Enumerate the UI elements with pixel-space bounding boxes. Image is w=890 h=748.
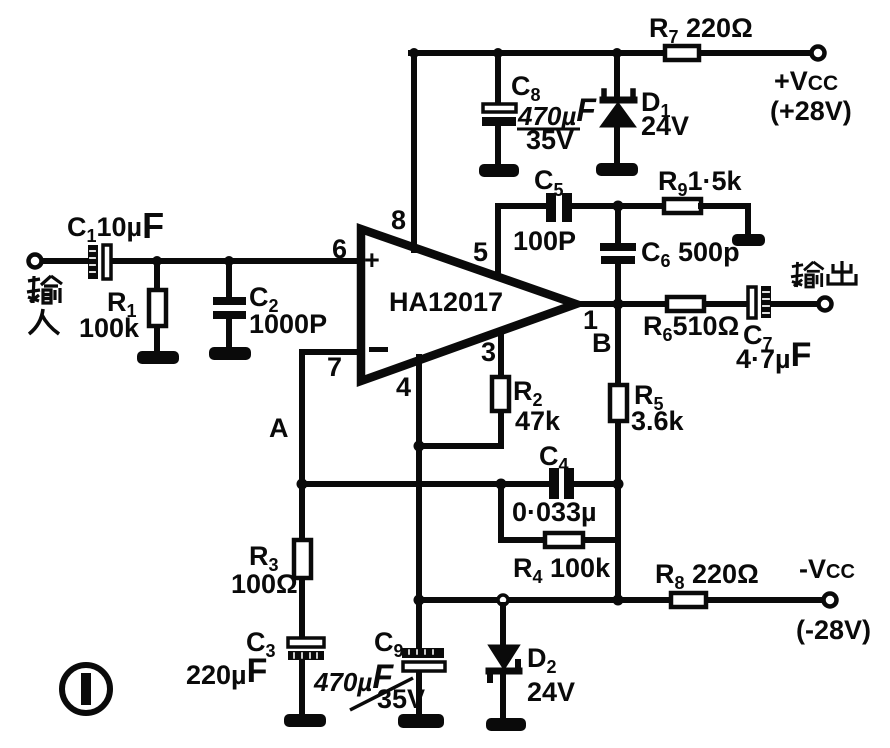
svg-text:B: B: [592, 328, 612, 358]
label C8 value handwritten: [517, 92, 597, 155]
label R3: [231, 541, 298, 599]
op-amp U1 HA12017: [361, 229, 576, 381]
node pin4 -Vcc: [414, 595, 425, 606]
svg-text:(-28V): (-28V): [796, 615, 871, 645]
capacitor C6: [600, 243, 636, 264]
node B: [613, 299, 624, 310]
terminal +Vcc: [812, 47, 825, 60]
label R9: [658, 166, 743, 200]
svg-text:24V: 24V: [527, 677, 575, 707]
wire R3 column: [299, 484, 305, 716]
label pin 1: [583, 305, 598, 335]
svg-text:+: +: [364, 245, 380, 275]
wire D2 column: [500, 605, 506, 719]
node R1: [152, 256, 162, 266]
label C4: [512, 441, 597, 527]
label D2: [527, 643, 575, 707]
svg-text:100P: 100P: [513, 226, 576, 256]
svg-text:3.6k: 3.6k: [631, 406, 685, 436]
wire C9 column: [416, 600, 422, 716]
node top rail D1: [612, 48, 622, 58]
svg-text:8: 8: [391, 205, 406, 235]
wire C5 to R9: [572, 203, 664, 209]
resistor R6: [667, 297, 704, 311]
svg-text:100Ω: 100Ω: [231, 569, 298, 599]
node top rail pin8 corner: [409, 48, 419, 58]
resistor R7: [665, 46, 699, 60]
ground D1: [596, 163, 638, 176]
node R5 -Vcc: [613, 595, 624, 606]
wire pin 5 to C5: [498, 206, 546, 276]
svg-text:C6 500p: C6 500p: [641, 237, 740, 271]
svg-text:R91·5k: R91·5k: [658, 166, 743, 200]
node A left junction: [297, 479, 308, 490]
label C8: [511, 71, 541, 105]
wire pin 3 column: [419, 335, 501, 446]
svg-text:R8 220Ω: R8 220Ω: [655, 559, 759, 593]
wire node A rail: [302, 481, 618, 487]
svg-text:(+28V): (+28V): [770, 96, 852, 126]
node C5 R9 C6: [613, 201, 624, 212]
label D1: [641, 87, 689, 141]
svg-text:A: A: [269, 413, 289, 443]
resistor R9: [664, 199, 701, 213]
label C7: [736, 320, 811, 374]
label input Chinese: [27, 276, 62, 303]
svg-text:4: 4: [396, 372, 411, 402]
label pin 3: [481, 337, 496, 367]
label R5: [631, 380, 685, 436]
terminal -Vcc: [824, 594, 837, 607]
label R1: [79, 287, 140, 343]
svg-text:47k: 47k: [515, 406, 561, 436]
zener diode D2: [489, 646, 519, 680]
label output Chinese: [791, 262, 824, 287]
resistor R1: [149, 290, 166, 326]
ground C3: [284, 714, 326, 727]
label R4: [513, 553, 611, 587]
svg-text:R4 100k: R4 100k: [513, 553, 611, 587]
terminal output: [819, 298, 832, 311]
ground R1: [137, 351, 179, 364]
svg-text:HA12017: HA12017: [389, 287, 503, 317]
svg-text:R7 220Ω: R7 220Ω: [649, 13, 753, 47]
wire R5 column: [615, 304, 621, 600]
ground R9: [732, 234, 765, 246]
wire top rail +Vcc: [411, 50, 812, 56]
zener diode D1: [602, 91, 634, 126]
wire pin 8 vertical: [411, 53, 417, 250]
wire pin 7 minus input: [302, 352, 361, 484]
wire C6 column: [615, 206, 621, 304]
node C4 left junction: [496, 479, 507, 490]
label R8: [655, 559, 759, 593]
label pin 6: [332, 234, 347, 264]
ground C9: [398, 714, 444, 728]
wire pin 4 column: [416, 357, 422, 650]
label R2: [513, 376, 561, 436]
capacitor C8: [482, 104, 516, 126]
node D2 open circle: [498, 595, 508, 605]
wire output node B row: [576, 301, 818, 307]
figure number circled 1: [62, 665, 110, 713]
capacitor C3: [288, 638, 324, 660]
wire R4 loop: [501, 484, 618, 540]
label C9: [313, 627, 425, 714]
resistor R4: [545, 533, 583, 547]
svg-text:35V: 35V: [377, 684, 425, 714]
label pin 4: [396, 372, 411, 402]
wire D1 column: [614, 53, 620, 164]
label C1 value: [67, 205, 164, 246]
terminal input: [29, 255, 42, 268]
label node A: [269, 413, 289, 443]
resistor R5: [610, 385, 627, 421]
svg-text:6: 6: [332, 234, 347, 264]
wire C8 column: [495, 53, 501, 165]
svg-text:C110µF: C110µF: [67, 205, 164, 246]
label minus: [369, 347, 388, 352]
capacitor C7: [748, 286, 771, 318]
capacitor C9: [402, 648, 445, 671]
wire R9 to ground: [701, 206, 748, 234]
label -Vcc: [796, 554, 871, 645]
svg-text:24V: 24V: [641, 111, 689, 141]
capacitor C4: [549, 468, 574, 499]
svg-text:5: 5: [473, 237, 488, 267]
svg-text:3: 3: [481, 337, 496, 367]
label C3: [186, 627, 276, 690]
svg-text:R6510Ω: R6510Ω: [643, 311, 739, 345]
label plus: [364, 245, 380, 275]
wire -Vcc rail: [419, 597, 823, 603]
label +Vcc: [770, 66, 852, 126]
svg-text:1000P: 1000P: [249, 309, 327, 339]
resistor R2: [492, 377, 509, 411]
wire C2 column: [226, 261, 232, 348]
ground C8: [479, 164, 519, 177]
capacitor C2: [213, 297, 246, 319]
capacitor C5: [546, 193, 572, 222]
wire input to plus pin 6: [42, 258, 361, 264]
label pin 8: [391, 205, 406, 235]
wire R1 column: [154, 261, 160, 353]
label HA12017: [389, 287, 503, 317]
svg-text:7: 7: [327, 352, 342, 382]
label C6: [641, 237, 740, 271]
svg-text:0·033µ: 0·033µ: [512, 497, 597, 527]
label C2: [249, 282, 327, 339]
capacitor C1: [88, 245, 111, 279]
label pin 7: [327, 352, 342, 382]
label pin 5: [473, 237, 488, 267]
ground C2: [209, 347, 251, 360]
resistor R8: [671, 593, 706, 607]
svg-text:100k: 100k: [79, 313, 140, 343]
label R6: [643, 311, 739, 345]
ground D2: [486, 718, 526, 731]
node C4 right junction: [613, 479, 624, 490]
label node B: [592, 328, 612, 358]
label C5 value: [513, 226, 576, 256]
node pin4 R2 junction: [414, 441, 425, 452]
node C2: [224, 256, 234, 266]
svg-text:35V: 35V: [526, 125, 574, 155]
node top rail C8: [493, 48, 503, 58]
label C5: [534, 165, 564, 200]
resistor R3: [294, 540, 311, 578]
label R7: [649, 13, 753, 47]
